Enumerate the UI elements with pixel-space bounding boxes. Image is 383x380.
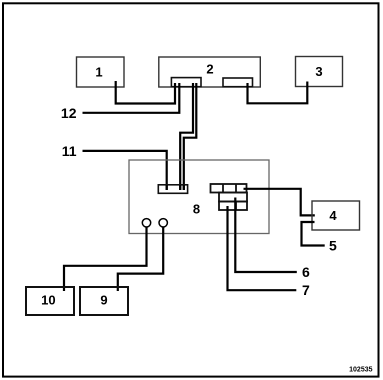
- svg-text:11: 11: [62, 143, 77, 159]
- svg-text:102535: 102535: [349, 367, 372, 374]
- pin wire pair ends: [179, 185, 181, 190]
- wire pair line a (box2 pin 3 to box8 connector): [180, 83, 193, 190]
- pin wire 11 end: [166, 185, 168, 190]
- svg-text:4: 4: [329, 208, 337, 223]
- wire terminal left to box 10: [64, 227, 147, 291]
- component box 4: [312, 201, 360, 230]
- connector in box 8 right: row A: [211, 184, 247, 193]
- wire connector to label 6: [235, 198, 296, 273]
- wire box1 to box2 connector pin 1: [116, 81, 175, 104]
- wire connector to label 7: [228, 206, 297, 290]
- component box 1: [77, 57, 125, 87]
- component box 8: [129, 160, 269, 234]
- component box 2: [159, 57, 260, 87]
- wire 12 line to box2 connector pin 2: [83, 83, 180, 113]
- terminal circle left in box 8: [142, 219, 150, 227]
- connector in box 8 right: row C: [219, 202, 247, 211]
- connector in box 8 right: row B: [219, 193, 247, 202]
- svg-text:2: 2: [206, 62, 213, 77]
- svg-text:10: 10: [41, 293, 55, 308]
- component box 9: [80, 287, 128, 315]
- wire connector to box 4: [244, 189, 315, 216]
- svg-text:8: 8: [193, 202, 200, 217]
- svg-text:7: 7: [302, 282, 310, 298]
- wire 11 line to box8 connector: [83, 151, 167, 190]
- connector on box 2 right: [223, 78, 253, 87]
- svg-text:3: 3: [315, 64, 322, 79]
- component box 10: [26, 287, 74, 315]
- svg-text:9: 9: [100, 293, 107, 308]
- svg-text:6: 6: [302, 264, 310, 280]
- wire pair line b (box2 pin 4 to box8 connector): [184, 83, 197, 190]
- terminal circle right in box 8: [159, 219, 167, 227]
- svg-text:12: 12: [61, 105, 77, 121]
- svg-text:5: 5: [329, 238, 337, 254]
- connector in box 8 left: [158, 185, 187, 194]
- wire terminal right to box 9: [118, 227, 163, 291]
- connector on box 2 left (4-pin): [171, 78, 201, 87]
- wire box4 to label 5: [302, 222, 325, 246]
- svg-text:1: 1: [95, 65, 102, 80]
- component box 3: [296, 57, 343, 87]
- wire box2 right connector to box3: [248, 82, 308, 104]
